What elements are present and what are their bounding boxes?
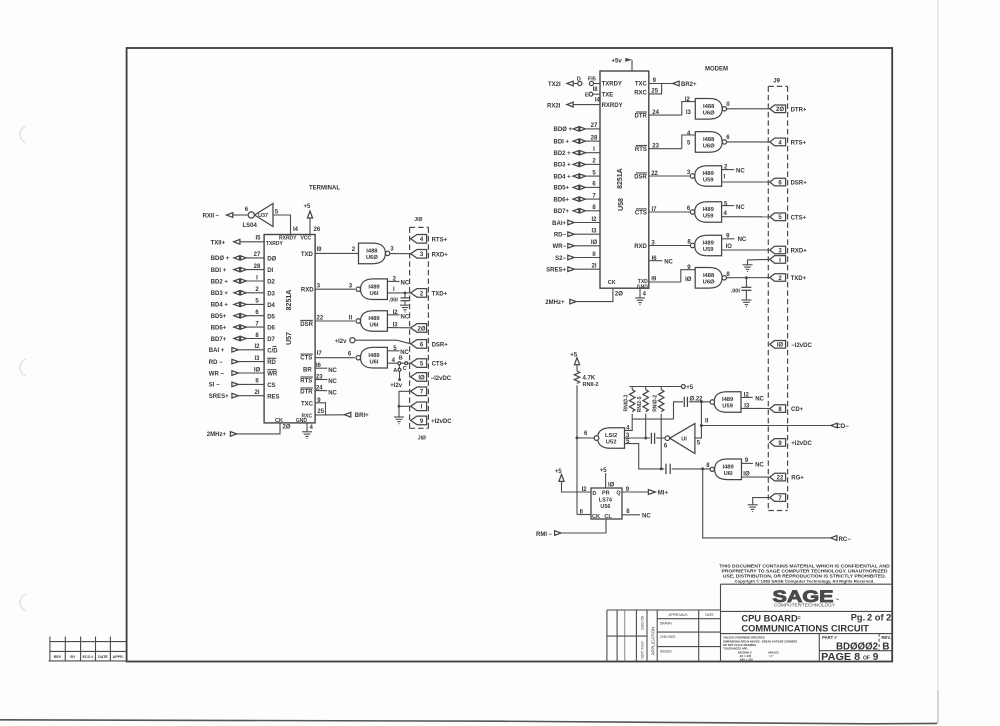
bus line BD5+ to U57 D5 [211, 310, 276, 320]
receiver 1489 U59 (DSR) [690, 166, 721, 187]
+5 supply to U56 D pin 12 [555, 469, 591, 493]
J10 pin 2 TXD+ [411, 289, 448, 298]
bus line BD4+ to U57 D4 [211, 299, 276, 309]
wire J9 pin 5 to U59 pin 4 [722, 211, 770, 217]
input RD&# to U58 RD [554, 229, 612, 239]
NC stub U61 pin 5 [387, 346, 409, 356]
paper right edge line [937, 0, 939, 723]
svg-text:CHECKED: CHECKED [660, 635, 676, 639]
J10 pin 9 +12vDC [411, 416, 453, 425]
wire U58 CTS pin 17 from U59 pin 6 [649, 206, 691, 213]
driver 1488 U60 (DTR) [695, 99, 726, 120]
wire U57 DSR pin 22 from U61 [315, 315, 355, 321]
bus line BD6+ to U57 D6 [211, 321, 276, 331]
resistor RN10-2 [653, 387, 664, 469]
ground below modem .001 cap [741, 300, 751, 307]
svg-text:OF: OF [863, 655, 870, 661]
input WR to U57 WR [209, 367, 278, 377]
ground wire for J9 pin 1 [743, 259, 770, 271]
bus line BD3+ to U57 D3 [211, 287, 276, 297]
svg-text:TOLERANCES ARE:: TOLERANCES ARE: [723, 647, 748, 651]
input 2MHz+ to U57 CK pin 20 [207, 423, 291, 438]
J10 pin 4 RTS+ [411, 235, 448, 244]
bus line BD6+ to U58 D6 [554, 193, 611, 203]
+5 supply U57 VCC pin 26 [304, 204, 321, 235]
svg-text:DO NOT SCALE DRAWING: DO NOT SCALE DRAWING [723, 643, 756, 647]
svg-text:Copyright © 1983 SAGE Computer: Copyright © 1983 SAGE Computer Technolog… [735, 578, 875, 583]
wire J10 pin 2 to U61 pin 1 [387, 287, 410, 293]
J9 pin 22 RG+ [770, 473, 805, 481]
wire U37 to pin 14 [273, 215, 299, 235]
resistor RN12-5 [637, 387, 648, 440]
bus line BD5+ to U58 D5 [554, 182, 611, 192]
J9 pin 20 DTR+ [770, 105, 807, 113]
NC stub U61 pin 12 [387, 310, 409, 321]
NC stub U59 pin 2 [722, 165, 746, 175]
svg-text:APPLICATION: APPLICATION [651, 627, 656, 656]
tolerance notes [723, 636, 797, 662]
+5v supply to U58 VCC [612, 58, 640, 79]
wire U58 DSR pin 22 from U59 pin 3 [649, 170, 691, 177]
receiver 1489 U61 (CTS) [356, 347, 387, 368]
input RD to U57 RD [209, 356, 277, 366]
NC stub U59 pin 5 [722, 201, 746, 211]
wire U58 TXD pin 19 to U60 pins 9 10 [649, 265, 695, 283]
svg-text:REV.: REV. [882, 635, 891, 640]
wire U60 out pin 3 to J10 pin 3 [390, 247, 411, 254]
J9 pin 7 [770, 494, 786, 502]
svg-text:=: = [798, 616, 801, 622]
input S2&# to U58 CS [555, 252, 610, 262]
svg-text:COMPUTER⁄TECHNOLOGY: COMPUTER⁄TECHNOLOGY [774, 603, 836, 609]
approvals strip labels [641, 613, 714, 659]
J9 pin 4 RTS+ [770, 138, 807, 146]
bus line BDI+ to U57 DI [211, 264, 274, 274]
punch mark bottom [20, 594, 26, 611]
svg-text:BDØØØ2: BDØØØ2 [836, 641, 878, 652]
NC stub U59 pin 9 [722, 234, 747, 244]
U57 pin names right side [300, 252, 314, 419]
NC stub U56 pin 8 [622, 509, 651, 519]
+12v source to J10 pin 6 [335, 338, 411, 346]
node RC- long wire [703, 469, 852, 543]
node CD- long wire [701, 423, 849, 430]
receiver 1489 U59 (CTS) [690, 202, 721, 223]
wire U60 pin 11 to J9 pin 20 [726, 102, 770, 109]
node TXII+ pin 15 [211, 236, 265, 247]
svg-text:DIMENSIONS ARE IN INCHES - BRE: DIMENSIONS ARE IN INCHES - BREAK OUTSIDE… [723, 639, 797, 643]
wire U57 RXD pin 3 from U61 [315, 284, 355, 290]
svg-text:COMMUNICATIONS CIRCUIT: COMMUNICATIONS CIRCUIT [741, 624, 869, 634]
bus line BD2+ to U58 D2 [554, 147, 611, 157]
bus line BD7+ to U58 D7 [554, 205, 611, 215]
svg-text:UNLESS OTHERWISE SPECIFIED: UNLESS OTHERWISE SPECIFIED [723, 636, 764, 640]
input SRES+ to U57 RES [209, 390, 280, 400]
J9 pin 3 RXD+ [770, 246, 807, 254]
wire to U56 CK pin 11 [577, 510, 591, 516]
receiver 1489 U61 (DSR) [356, 311, 387, 332]
node RX2I from U58 RXRDY pin 14 [547, 98, 601, 110]
bottom rail U52 pin 4 net [625, 419, 674, 432]
svg-text:DRAWN: DRAWN [660, 621, 673, 625]
wire U52 pin 3 through capacitor to U1 [625, 433, 650, 439]
node MI+ from U56 Q pin 9 [622, 487, 668, 497]
receiver 1489 U61 (RXD) [356, 279, 387, 300]
wire U1 output to node 11 [695, 400, 709, 438]
wire U58 TXC pin 9 loop RXC pin 25 and node BR2+ [649, 78, 697, 94]
J10 pin 1 [398, 402, 427, 411]
wire node to U52 pin 6 [577, 431, 594, 438]
capacitor 0.22 [684, 396, 710, 407]
+5 supply above 4.7K [570, 352, 579, 371]
wire U58 RTS pin 23 to U60 pins 4 5 [649, 131, 696, 150]
title CPU BOARD COMMUNICATIONS CIRCUIT [741, 614, 869, 634]
input SRES to U58 RES [546, 264, 614, 274]
svg-text:CPU BOARD: CPU BOARD [741, 614, 798, 624]
bus line BDI+ to U58 DI [554, 135, 609, 145]
J10 connector dashed box [410, 217, 429, 442]
bus line BD4+ to U58 D4 [554, 170, 611, 180]
receiver 1489 U61 (RG) [710, 459, 741, 480]
NC stub U57 RTS pin 23 [315, 374, 337, 385]
wire U57 TXD pin 19 to U60 [315, 247, 358, 253]
wire J9 pin 3 to U59 pin 10 [722, 244, 770, 250]
driver 1488 U60 (TXD) [359, 243, 390, 264]
svg-text:PAGE 8: PAGE 8 [821, 652, 860, 663]
wire U52 pin 5 to RG coupling cap [625, 439, 665, 470]
capacitor .001 on modem TXD line [731, 276, 752, 300]
part number box [822, 634, 891, 653]
flip-flop LS74 U56 [591, 488, 622, 520]
wire U58 RXD pin 3 from U59 pin 8 [649, 240, 692, 247]
svg-text:APPROVALS: APPROVALS [668, 613, 687, 617]
wire 4.7K down to U52 and U56 CK [576, 385, 579, 514]
wire J9 pin 6 to U59 pin 1 [722, 174, 770, 182]
wire U57 CTS pin 17 from U61 [315, 351, 355, 358]
receiver 1489 U59 (CD) [710, 392, 741, 413]
bus line BD3+ to U58 D3 [554, 159, 611, 169]
chip U57 8251A body [264, 235, 315, 424]
title block outer lines [721, 584, 893, 661]
driver 1488 U60 (TXD) [695, 268, 726, 289]
J9 pin 8 CD+ [770, 405, 804, 413]
J10 pin 7 [399, 387, 427, 406]
J9 pin 9 +12vDC [770, 439, 813, 447]
page of box [821, 652, 879, 663]
+5 supply to U56 PR pin 10 [600, 468, 615, 489]
svg-text:USED ON: USED ON [641, 615, 645, 630]
gate LS12 U52 [594, 428, 624, 449]
driver 1488 U60 (RTS) [695, 132, 726, 153]
J9 pin 5 CTS+ [770, 213, 807, 221]
input RMI- to U56 CL [536, 519, 606, 538]
resistor RN10-3 [624, 387, 635, 420]
confidentiality notice text [719, 564, 890, 584]
wire U60 pin 8 to J9 pin 2 [726, 272, 769, 278]
wire U61 pin 10 to J9 pin 22 [742, 472, 770, 478]
J10 pin 10 -12vDC [411, 373, 452, 382]
NC stub U57 DTR pin 24 [315, 385, 337, 396]
J10 pin 5 CTS+ [411, 359, 448, 368]
ground below .001 cap [400, 305, 410, 312]
wire U58 DTR pin 24 to U60 pins 12 13 [649, 97, 696, 116]
J10 pin 20 [411, 324, 427, 333]
SAGE logo [773, 587, 840, 609]
ground wire for J9 pin 7 [748, 498, 770, 512]
bus line BD7+ to U57 D7 [211, 333, 276, 343]
wire U60 pin 6 to J9 pin 4 [726, 135, 770, 142]
J10 pin 3 RXD+ [411, 250, 449, 259]
punch mark top [20, 126, 26, 143]
bus line BDØ+ to U57 DØ [211, 252, 277, 262]
NC stub U59 pin 12 [741, 393, 765, 403]
wire U61 pin 4 to J10 pin 5 [387, 358, 410, 364]
inverter U37 LS04 [243, 204, 279, 229]
ground at U57 GND pin 4 [302, 423, 314, 439]
NC stub U61 pin 2 [387, 277, 409, 287]
NC stub U61 pin 9 [742, 458, 765, 468]
chip U58 8251A body [600, 71, 649, 291]
svg-text:9: 9 [873, 652, 879, 663]
capacitor U52 pin3 to U1 [651, 433, 665, 444]
NC stub U58 pin 16 [649, 256, 674, 265]
bus line BDØ+ to U58 DØ [554, 123, 612, 133]
ground for J10 pins 7 and 1 [394, 406, 404, 423]
J9 pin 10 -12vDC [770, 341, 813, 350]
J10 pin 6 DSR+ [411, 340, 449, 349]
svg-text:± 1°: ± 1° [769, 654, 774, 658]
input BAI to U57 C/D [209, 344, 278, 354]
input 2MHz+ to U58 CK pin 20 [545, 288, 623, 306]
svg-text:.XXX ± .010: .XXX ± .010 [739, 657, 753, 661]
svg-text:ISSUED: ISSUED [660, 649, 673, 653]
input BAI+ to U58 C/D [552, 217, 613, 227]
svg-text:NEXT ASSY: NEXT ASSY [641, 640, 645, 659]
J9 connector dashed box [768, 79, 787, 511]
ground at U58 GND pin 4 [635, 288, 647, 305]
drawing frame border [127, 48, 893, 662]
svg-text:DECIMALS: DECIMALS [738, 650, 752, 654]
input SI to U57 CS [209, 379, 276, 389]
node BRI+ [326, 412, 370, 419]
resistor 4.7K RN11-2 [574, 371, 598, 388]
J9 pin 2 TXD+ [770, 274, 807, 282]
paper bottom edge line [0, 720, 937, 724]
capacitor .001 on RXD line [389, 292, 410, 306]
svg-text:PART #: PART # [822, 635, 837, 640]
svg-text:™: ™ [836, 598, 840, 603]
node RXII- [203, 213, 249, 220]
J9 pin 1 [770, 256, 786, 264]
wire U57 TXC pin 9 loop to RXC pin 25 [315, 398, 325, 415]
bus line BD2+ to U57 D2 [211, 275, 276, 285]
svg-text:ANGLES: ANGLES [768, 650, 779, 654]
op-amp U1 [664, 424, 701, 454]
wire U59 pin 13 to J9 pin 8 [741, 404, 770, 410]
capacitor RG coupling [666, 464, 710, 474]
revision table bottom-left [49, 637, 127, 661]
svg-text:B: B [882, 641, 889, 652]
input WR&# to U58 WR [553, 240, 613, 250]
receiver 1489 U59 (RXD) [690, 235, 721, 256]
punch mark middle [20, 359, 26, 376]
approvals strip grid [607, 610, 721, 662]
+5 rail with pull-up resistor network [629, 385, 693, 391]
node TX2I with jumper pads D F to U58 TXRDY pin 15 [548, 76, 600, 88]
svg-text:Pg. 2 of 2: Pg. 2 of 2 [851, 612, 892, 622]
NC stub U57 BR pin 16 [315, 363, 337, 374]
jumper pads A B C on CTS line [393, 355, 407, 381]
node E jumper pad to U58 TXE pin 18 [585, 87, 600, 98]
svg-text:DATE: DATE [705, 613, 713, 617]
wire rail riser to 0.22 cap [674, 402, 684, 419]
wire J10 pin 20 to U61 pin 13 [387, 322, 410, 328]
J9 pin 6 DSR+ [770, 178, 807, 186]
